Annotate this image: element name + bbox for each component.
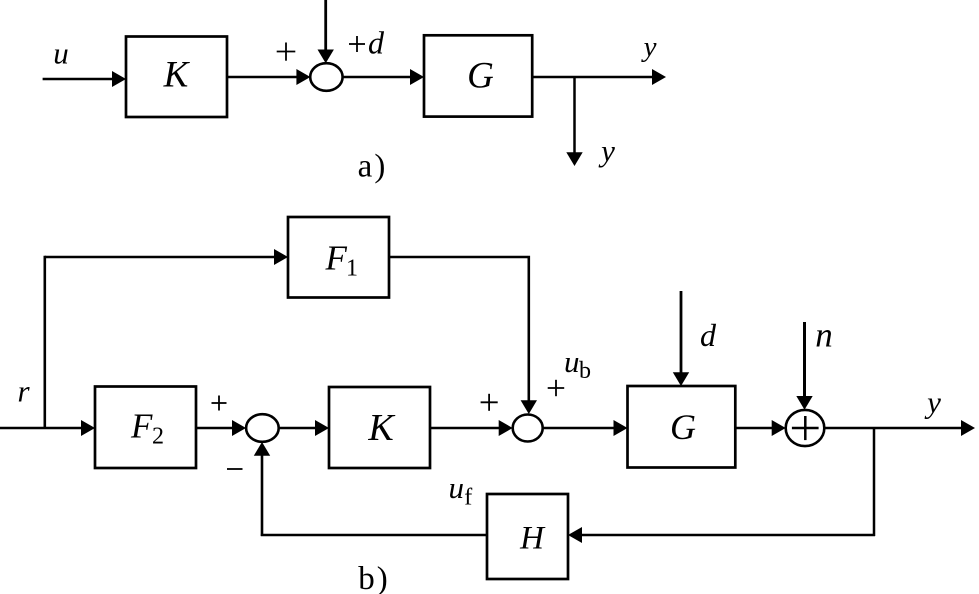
plus sign at summing junction input: [277, 43, 296, 61]
svg-text:y: y: [598, 133, 615, 168]
node label u_b: [564, 344, 591, 384]
svg-text:G: G: [467, 56, 494, 97]
block F2: [95, 387, 196, 469]
wire: H output back to sum 1: [261, 534, 487, 537]
label F2: [130, 407, 164, 450]
wire: feedback into H: [568, 527, 875, 543]
block G: [424, 35, 532, 116]
wire: sum 1 to K: [279, 420, 329, 436]
svg-text:u: u: [449, 470, 465, 505]
svg-text:H: H: [519, 521, 546, 557]
label +d: [349, 25, 385, 61]
block H: [487, 494, 568, 579]
svg-text:b: b: [579, 358, 591, 384]
wire: output y: [824, 420, 975, 436]
wire: input r: [0, 420, 95, 436]
wire: noise n into sum 3: [796, 322, 812, 410]
svg-text:u: u: [53, 36, 69, 71]
svg-text:F: F: [130, 407, 153, 446]
svg-text:r: r: [17, 374, 30, 409]
plus sign (F1 path into sum 2): [548, 380, 565, 396]
svg-text:f: f: [464, 485, 472, 511]
svg-text:G: G: [670, 407, 696, 447]
wire: feedback riser into sum 1 (minus input): [254, 442, 270, 536]
wire: into F1: [45, 249, 288, 265]
block G (b): [628, 386, 736, 468]
wire: K output to summing junction: [227, 69, 310, 85]
plus sign (F2 path into sum 1): [212, 396, 227, 411]
svg-text:K: K: [163, 55, 191, 96]
wire: K output to summing junction 2: [430, 420, 513, 436]
wire: junction riser from r line up to F1 path: [43, 256, 46, 429]
wire: disturbance d into G: [673, 291, 689, 386]
svg-text:y: y: [924, 385, 941, 420]
wire: F1 output over and down into summing junction 2: [389, 256, 537, 414]
label F1: [325, 239, 359, 282]
wire: summing junction to G: [343, 69, 424, 85]
svg-text:K: K: [367, 407, 395, 449]
svg-text:d: d: [700, 317, 717, 353]
wire: sum 2 to G: [543, 420, 628, 436]
minus sign (feedback into sum 1): [227, 468, 243, 470]
svg-text:b): b): [358, 561, 390, 594]
wire: G output to summing junction 3: [735, 420, 785, 436]
plus sign (K path into sum 2): [481, 394, 498, 411]
block K (b): [329, 387, 430, 468]
wire: input u into K: [43, 71, 126, 87]
summing junction 3 (with plus): [786, 410, 825, 446]
svg-text:n: n: [815, 316, 833, 355]
wire: F2 output to summing junction 1: [196, 420, 246, 436]
block K: [126, 37, 227, 118]
wire: disturbance d dropping from top: [318, 0, 334, 63]
svg-text:a): a): [358, 149, 388, 185]
summing junction 2: [513, 415, 543, 442]
svg-text:F: F: [325, 239, 348, 278]
summing junction (a): [310, 63, 342, 91]
wire: feedback branch down: [873, 428, 876, 536]
svg-text:1: 1: [346, 256, 358, 282]
block F1: [288, 217, 389, 298]
svg-text:2: 2: [152, 424, 164, 450]
wire: G output y: [532, 69, 666, 85]
svg-text:y: y: [641, 31, 657, 63]
wire: branch down to measured y: [566, 77, 582, 166]
node label u_f: [449, 470, 473, 511]
summing junction 1: [246, 414, 279, 442]
svg-text:d: d: [368, 25, 385, 61]
svg-text:u: u: [564, 344, 580, 379]
